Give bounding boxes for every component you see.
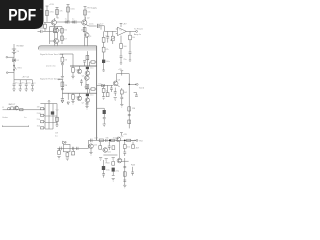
- svg-text:15k: 15k: [127, 146, 130, 148]
- wire master vertical: [128, 85, 130, 128]
- svg-text:25k: 25k: [37, 119, 40, 121]
- wire R16 ground lead: [61, 93, 63, 98]
- resistor R6: [61, 28, 64, 33]
- resistor R14: [72, 66, 74, 68]
- wire ladder mid rail: [48, 104, 50, 129]
- resistor R32: [66, 152, 68, 153]
- resistor R8: [83, 27, 86, 31]
- capacitor C32: [102, 170, 105, 178]
- svg-text:100u: 100u: [105, 61, 109, 63]
- transistor Q9: [77, 96, 82, 101]
- ground G7: [84, 87, 87, 90]
- resistor R43: [123, 172, 126, 176]
- capacitor C11: [25, 80, 28, 89]
- transistor Q2: [82, 20, 87, 25]
- svg-text:47u: 47u: [15, 82, 18, 84]
- diode D3: [63, 141, 66, 144]
- node junction J1: [128, 84, 130, 86]
- wire reverb up: [87, 140, 89, 148]
- node junction J2: [109, 139, 111, 141]
- wire supply drop 4: [84, 7, 87, 20]
- svg-text:47k: 47k: [105, 49, 108, 51]
- wire collector feed B: [86, 85, 88, 93]
- svg-text:10k: 10k: [105, 35, 108, 37]
- svg-text:To Power: To Power: [134, 28, 143, 31]
- node junction J3: [124, 140, 126, 142]
- svg-text:22k: 22k: [64, 30, 67, 32]
- wire zener branch: [97, 108, 105, 110]
- svg-text:1M: 1M: [64, 85, 67, 87]
- resistor R37: [99, 142, 101, 146]
- wire Q5 emitter to bus: [85, 37, 88, 46]
- wire final vertical: [124, 158, 126, 185]
- node input jack: [8, 107, 10, 109]
- capacitor C30: [123, 148, 126, 156]
- wire C3 junction drop: [100, 26, 102, 30]
- ground G19: [99, 158, 102, 161]
- wire R42 tail: [112, 172, 115, 176]
- capacitor C27: [91, 139, 92, 143]
- wire input B: [59, 79, 62, 93]
- resistor R39: [124, 141, 126, 144]
- capacitor C12: [31, 80, 34, 89]
- wire input A shunt: [61, 54, 63, 57]
- capacitor C6: [106, 31, 109, 42]
- node output jack: [136, 31, 138, 33]
- svg-text:10u: 10u: [90, 68, 93, 70]
- svg-text:Amp In: Amp In: [134, 33, 142, 36]
- transistor Q15: [103, 148, 108, 153]
- resistor R24: [40, 127, 43, 129]
- wire bottom rail: [88, 139, 135, 141]
- ground G17: [66, 158, 69, 161]
- bus bar top edge: [39, 46, 97, 50]
- svg-text:1n: 1n: [110, 40, 112, 42]
- svg-text:9V BAT: 9V BAT: [16, 45, 24, 48]
- wire input jack line: [3, 109, 45, 111]
- svg-text:1k: 1k: [106, 90, 108, 92]
- resistor R40: [132, 142, 134, 145]
- svg-text:+15V: +15V: [49, 4, 55, 6]
- wire battery chain: [13, 44, 15, 80]
- wire vertical bus: [96, 46, 98, 141]
- capacitor C19 polarized: [51, 111, 54, 114]
- resistor R44: [132, 167, 134, 172]
- node tie label: [120, 160, 128, 162]
- wire Q1 collector: [54, 18, 56, 20]
- wire ladder right rail: [52, 104, 54, 129]
- diode D1: [13, 59, 16, 62]
- ground G22: [112, 178, 115, 181]
- resistor R41: [103, 160, 105, 166]
- capacitor C13: [61, 62, 64, 76]
- ground G4: [31, 89, 34, 92]
- capacitor C24: [60, 147, 61, 151]
- capacitor C8: [129, 52, 132, 61]
- svg-text:(norm ch): (norm ch): [46, 64, 56, 67]
- wire R10 down: [103, 52, 105, 60]
- wire stage1 interconnect: [56, 21, 81, 23]
- wire reverb rail: [57, 147, 88, 149]
- wire input B arrow: [58, 79, 60, 80]
- svg-text:33k: 33k: [105, 138, 108, 140]
- resistor R1: [46, 11, 49, 16]
- transistor Q11: [14, 106, 18, 110]
- ground G1: [12, 89, 15, 92]
- wire input B divider: [67, 93, 69, 100]
- capacitor C2: [75, 20, 77, 23]
- resistor R26: [103, 85, 105, 88]
- wire opamp output: [126, 30, 135, 32]
- svg-text:Send: Send: [139, 88, 145, 90]
- svg-text:10k: 10k: [113, 138, 116, 140]
- resistor R47: [44, 24, 47, 28]
- PDF badge: [0, 0, 44, 29]
- svg-text:47u: 47u: [21, 82, 24, 84]
- svg-text:Guitar: Guitar: [2, 116, 8, 119]
- svg-text:100k: 100k: [70, 9, 74, 11]
- capacitor C36: [131, 172, 134, 176]
- transistor Q16: [117, 158, 122, 163]
- capacitor C23: [128, 114, 131, 115]
- wire bias link: [43, 30, 50, 32]
- ground G16: [57, 156, 60, 159]
- ground G8: [61, 99, 64, 102]
- transistor Q5: [84, 33, 89, 38]
- wire supply drop 1: [46, 6, 49, 22]
- ground G21: [112, 158, 115, 161]
- capacitor C15: [80, 79, 83, 86]
- ground G18: [89, 152, 92, 155]
- capacitor C16: [61, 88, 64, 89]
- ground G3: [25, 89, 28, 92]
- wire supply drop 2: [56, 8, 59, 19]
- node bottom out circle: [136, 140, 138, 142]
- resistor R28: [121, 88, 123, 90]
- wire Q2 emitter to coupling: [86, 25, 97, 26]
- wire bias loop: [50, 27, 62, 47]
- wire input A: [60, 54, 73, 66]
- resistor R10: [102, 47, 105, 52]
- resistor R36: [127, 139, 131, 141]
- capacitor C26: [77, 147, 78, 150]
- resistor R21: [40, 108, 43, 110]
- node bias left: [38, 30, 41, 32]
- svg-text:10k: 10k: [37, 126, 40, 128]
- resistor R13: [61, 57, 64, 62]
- svg-text:10u: 10u: [90, 95, 93, 97]
- node +9V opamp: [120, 23, 123, 27]
- svg-text:1M: 1M: [64, 60, 67, 62]
- svg-text:250k: 250k: [37, 113, 41, 115]
- wire supply drop 3: [67, 5, 70, 22]
- resistor R9: [103, 31, 105, 37]
- capacitor C5 polarized: [102, 60, 105, 63]
- transistor Q8: [85, 76, 90, 81]
- wire ladder tail: [56, 121, 59, 126]
- svg-text:+9V: +9V: [123, 24, 127, 26]
- wire jack stub: [8, 56, 14, 58]
- node +9V third stage: [120, 71, 123, 76]
- resistor R31: [58, 148, 60, 150]
- ground G13: [102, 97, 105, 100]
- capacitor C3: [98, 24, 99, 28]
- transistor Q10: [85, 98, 90, 103]
- resistor R18: [91, 88, 95, 90]
- resistor R25: [56, 117, 59, 121]
- diode D2: [102, 84, 105, 87]
- svg-text:10u: 10u: [27, 82, 30, 84]
- svg-text:47k: 47k: [59, 11, 62, 13]
- capacitor C10: [19, 80, 22, 89]
- svg-text:Ret: Ret: [139, 140, 143, 143]
- svg-text:25u: 25u: [123, 59, 126, 61]
- svg-text:1u: 1u: [33, 82, 35, 84]
- svg-text:1M: 1M: [132, 108, 135, 110]
- wire Q5 branch: [84, 27, 86, 33]
- svg-text:+9V: +9V: [123, 134, 127, 136]
- wire Q1 base: [44, 22, 51, 24]
- wire ladder top: [40, 101, 57, 104]
- ground G9: [71, 101, 74, 104]
- svg-text:1M: 1M: [37, 106, 40, 108]
- wire bottom out arrow: [131, 140, 136, 141]
- svg-text:100k: 100k: [75, 97, 79, 99]
- svg-text:1k: 1k: [71, 154, 73, 156]
- resistor R42: [112, 162, 115, 166]
- resistor R35: [111, 139, 115, 141]
- resistor R38: [112, 146, 115, 150]
- wire bias tie: [103, 154, 117, 156]
- resistor R20: [20, 109, 23, 111]
- ground G12: [67, 102, 69, 105]
- wire ladder left rail: [44, 104, 46, 129]
- ground G5: [61, 76, 64, 79]
- svg-text:220n: 220n: [89, 23, 93, 25]
- svg-text:+9V rail: +9V rail: [22, 76, 30, 79]
- resistor R27: [107, 85, 109, 92]
- ground G6: [71, 76, 74, 79]
- svg-text:Signal In From Tone Stack: Signal In From Tone Stack: [40, 53, 63, 56]
- resistor R33: [72, 150, 74, 151]
- capacitor C37: [83, 61, 86, 66]
- resistor R19: [11, 107, 14, 110]
- resistor R45: [86, 55, 89, 59]
- svg-text:100k: 100k: [75, 70, 79, 72]
- capacitor C35: [123, 180, 126, 181]
- svg-text:470k: 470k: [49, 12, 53, 14]
- capacitor C22: [134, 92, 138, 96]
- resistor R17: [72, 93, 74, 94]
- op-amp U1: [117, 27, 126, 35]
- transistor Q1: [51, 20, 56, 25]
- wire collector feed A: [86, 51, 88, 66]
- wire R9-R10: [103, 42, 105, 47]
- capacitor C14 polarized: [86, 67, 89, 69]
- svg-text:Signal In From Tone Stack: Signal In From Tone Stack: [40, 78, 63, 81]
- wire Q2 collector: [84, 17, 86, 20]
- transistor Q14: [89, 144, 94, 149]
- transistor Q12: [113, 81, 118, 86]
- wire third stage rail: [97, 84, 114, 86]
- capacitor C7: [120, 56, 123, 64]
- capacitor C9: [13, 80, 16, 89]
- capacitor C31 polarized: [102, 166, 105, 170]
- capacitor C4: [41, 30, 42, 33]
- ground G23: [123, 185, 126, 188]
- switch SW1: [14, 65, 16, 71]
- resistor R12: [129, 31, 131, 35]
- svg-text:1u: 1u: [72, 19, 74, 21]
- capacitor C38 polarized: [103, 110, 106, 114]
- svg-text:PDF: PDF: [8, 7, 36, 25]
- svg-text:10k: 10k: [87, 11, 90, 13]
- ground G20: [105, 159, 108, 162]
- ground G11: [61, 100, 64, 103]
- wire channel B rail: [62, 92, 96, 94]
- ground G15: [120, 104, 123, 107]
- wire Q1 emitter: [54, 25, 56, 28]
- ground G2: [19, 89, 22, 92]
- capacitor C34: [123, 166, 126, 167]
- svg-text:1u: 1u: [65, 19, 67, 21]
- resistor R34: [99, 139, 103, 142]
- resistor R2: [56, 10, 59, 15]
- resistor R5: [53, 28, 56, 33]
- capacitor C20: [110, 85, 113, 92]
- resistor R22: [40, 114, 43, 116]
- resistor R15: [91, 61, 95, 63]
- svg-text:+9V Supply: +9V Supply: [86, 8, 98, 10]
- transistor Q4: [54, 39, 59, 44]
- potentiometer VR1: [112, 31, 114, 36]
- wire Q12 emitter out: [117, 85, 120, 86]
- resistor R23: [40, 121, 43, 123]
- wire stage1 drop A: [54, 33, 56, 47]
- wire Q12 collector: [116, 74, 118, 82]
- capacitor C39: [103, 114, 106, 124]
- node out circle: [136, 84, 138, 86]
- resistor R7: [61, 36, 64, 40]
- ground G24: [103, 124, 106, 127]
- capacitor C25: [72, 147, 73, 150]
- resistor R4: [84, 10, 87, 15]
- capacitor C33 polarized: [112, 168, 115, 172]
- wire ladder far rail: [56, 104, 58, 125]
- svg-text:10k: 10k: [132, 37, 135, 39]
- capacitor C1: [68, 20, 70, 23]
- capacitor C17 polarized: [86, 94, 89, 96]
- transistor Q6: [77, 69, 82, 74]
- wire shield line: [3, 125, 29, 127]
- transistor Q3: [54, 28, 59, 33]
- wire C5 ground lead: [102, 63, 105, 71]
- battery BT1: [12, 49, 16, 54]
- transistor Q7: [85, 71, 90, 76]
- node +9V bottom: [120, 133, 123, 136]
- svg-text:+9V: +9V: [118, 69, 122, 71]
- capacitor C21: [114, 88, 117, 96]
- capacitor C28: [106, 139, 107, 142]
- wire dc stub: [8, 72, 14, 74]
- resistor R29: [128, 107, 131, 111]
- svg-text:In: In: [9, 104, 11, 106]
- wire Q12 output: [117, 74, 130, 85]
- capacitor C29: [108, 142, 111, 150]
- value labels: [2, 9, 135, 157]
- ground G14: [114, 98, 117, 101]
- wire filter rail: [14, 79, 32, 81]
- capacitor C18: [86, 102, 89, 106]
- wire channel A rail: [70, 65, 97, 67]
- ground G10: [85, 106, 88, 109]
- resistor R11: [120, 36, 122, 44]
- resistor R3: [67, 7, 70, 12]
- transformer T1: [63, 144, 70, 151]
- resistor R30: [128, 120, 131, 124]
- resistor R46: [86, 85, 89, 89]
- wire out arrow: [130, 84, 136, 85]
- resistor R16: [61, 82, 64, 87]
- wire to opamp: [100, 26, 117, 32]
- bus shadow band: [39, 46, 96, 50]
- transistor Q13: [116, 137, 121, 142]
